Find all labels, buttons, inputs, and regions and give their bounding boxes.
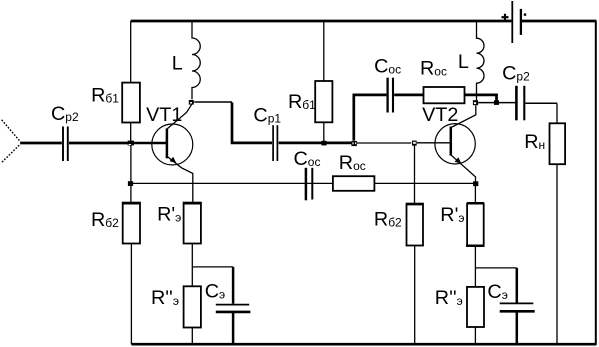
svg-text:R''э: R''э [435,287,463,309]
svg-text:Rб1: Rб1 [91,85,119,107]
svg-text:Rн: Rн [524,131,545,153]
svg-text:R'э: R'э [157,204,181,226]
svg-text:Rб1: Rб1 [288,91,316,113]
svg-text:Rос: Rос [339,152,366,174]
svg-text:Cэ: Cэ [487,281,507,303]
svg-text:R'э: R'э [440,204,464,226]
svg-text:Rб2: Rб2 [91,209,119,231]
svg-text:VT2: VT2 [422,104,458,126]
svg-text:Rос: Rос [420,57,447,79]
svg-text:L: L [458,51,469,73]
svg-text:Cос: Cос [374,56,401,78]
svg-text:Cр2: Cр2 [51,103,79,125]
svg-text:Cос: Cос [294,148,321,170]
svg-text:L: L [172,52,183,74]
svg-text:VT1: VT1 [146,104,182,126]
svg-text:R''э: R''э [151,287,179,309]
svg-text:Cр2: Cр2 [502,63,530,85]
svg-text:Cр1: Cр1 [253,104,281,126]
svg-text:Rб2: Rб2 [374,209,402,231]
svg-text:Cэ: Cэ [205,280,225,302]
